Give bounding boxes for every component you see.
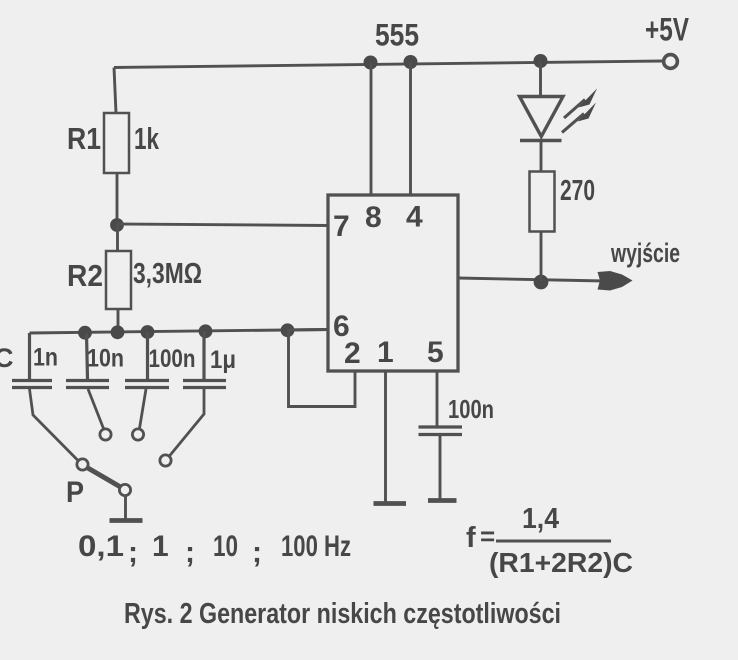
- label 100n (pin5): [448, 394, 494, 424]
- capacitor C5 100n: [419, 427, 463, 435]
- switch contact C2: [100, 429, 111, 440]
- wire C5 to ground: [439, 435, 442, 500]
- label wyjscie: [610, 238, 680, 268]
- wire pin 1 stub: [384, 371, 387, 502]
- node rail-LED: [534, 54, 548, 68]
- svg-text:2: 2: [344, 337, 361, 370]
- wire C bus: [30, 330, 329, 334]
- svg-text:;: ;: [128, 536, 138, 569]
- pin 8: [365, 201, 382, 234]
- wire pin 6: [288, 328, 329, 331]
- svg-text:5: 5: [427, 336, 444, 369]
- wire node A to R2: [116, 225, 119, 251]
- svg-text:;: ;: [185, 536, 195, 569]
- switch contact C4: [160, 455, 171, 466]
- wire LED to R3: [540, 141, 543, 172]
- wire pin 5 stub: [436, 371, 439, 426]
- svg-text:1k: 1k: [134, 121, 160, 156]
- svg-text:C: C: [0, 343, 14, 373]
- svg-text:10n: 10n: [87, 345, 124, 373]
- svg-text:R2: R2: [67, 258, 103, 293]
- wire node A to pin 7: [117, 224, 328, 226]
- label P: [66, 476, 84, 509]
- wire pin 2 loop: [289, 330, 356, 407]
- svg-text:10: 10: [213, 530, 238, 563]
- caption Rys. 2: [124, 598, 561, 630]
- svg-text:270: 270: [560, 175, 595, 207]
- switch contact C3: [132, 429, 143, 440]
- svg-text:P: P: [66, 476, 84, 509]
- terminal +5V: [664, 55, 678, 69]
- LED light arrow 1: [564, 89, 597, 119]
- pin 5: [427, 336, 444, 369]
- svg-text:100n: 100n: [149, 345, 196, 373]
- formula f = 1,4 / (R1+2R2)C: [466, 503, 633, 578]
- output arrow: [598, 271, 633, 291]
- node bus-C1n: [78, 326, 92, 340]
- svg-text:8: 8: [365, 201, 382, 234]
- label 10n: [87, 345, 124, 373]
- label C: [0, 343, 14, 373]
- wire output pin 3: [458, 278, 605, 281]
- svg-text:100n: 100n: [448, 394, 494, 424]
- LED light arrow 2: [562, 103, 596, 133]
- svg-text:1,4: 1,4: [522, 503, 559, 535]
- pin 2: [344, 337, 361, 370]
- resistor R3 270: [530, 172, 555, 232]
- node rail-pin4: [404, 55, 418, 69]
- node bus-R2: [111, 325, 125, 339]
- svg-text:555: 555: [375, 17, 419, 53]
- node bus-C100n: [141, 325, 155, 339]
- pin 1: [377, 336, 394, 369]
- capacitor C4 1u: [169, 332, 226, 457]
- svg-text:1μ: 1μ: [210, 346, 236, 374]
- ground C5: [428, 498, 457, 503]
- svg-text:Rys. 2 Generator niskich częst: Rys. 2 Generator niskich częstotliwości: [124, 598, 561, 630]
- node rail-pin8: [364, 56, 378, 70]
- svg-text:R1: R1: [67, 121, 101, 156]
- label 1n: [33, 344, 58, 372]
- svg-text:;: ;: [252, 536, 262, 569]
- svg-text:(R1+2R2)C: (R1+2R2)C: [489, 547, 633, 578]
- svg-text:1n: 1n: [33, 344, 58, 372]
- label R1: [67, 121, 101, 156]
- svg-text:3,3MΩ: 3,3MΩ: [133, 258, 202, 290]
- capacitor C3 100n: [125, 332, 169, 429]
- svg-text:4: 4: [406, 201, 423, 234]
- svg-text:1: 1: [377, 336, 394, 369]
- label 1u: [210, 346, 236, 374]
- svg-text:100 Hz: 100 Hz: [281, 530, 351, 563]
- svg-text:f: f: [466, 522, 476, 554]
- label 270: [560, 175, 595, 207]
- svg-text:7: 7: [333, 210, 350, 243]
- pin 7: [333, 210, 350, 243]
- ground pin 1: [374, 501, 407, 506]
- node bus-C1u: [199, 324, 213, 338]
- node A (R1/R2/pin7): [110, 218, 124, 232]
- switch P pole: [119, 484, 130, 495]
- label 3,3 Mohm: [133, 258, 202, 290]
- ground under switch: [110, 518, 143, 523]
- wire pin 4 stub: [409, 62, 412, 195]
- node bus-pin2: [281, 323, 295, 337]
- resistor R2: [106, 251, 131, 309]
- switch contact C1: [77, 459, 88, 470]
- LED D1: [520, 97, 564, 141]
- wire rail to R1: [114, 68, 116, 114]
- formula fraction bar: [496, 540, 611, 543]
- pin 6: [333, 310, 350, 343]
- op-amp U1 555 body: [328, 195, 458, 371]
- label R2: [67, 258, 103, 293]
- svg-text:+5V: +5V: [645, 12, 689, 48]
- label 100n: [149, 345, 196, 373]
- label 555: [375, 17, 419, 53]
- label 1k: [134, 121, 160, 156]
- svg-text:wyjście: wyjście: [610, 238, 680, 268]
- wire rail to LED: [539, 61, 542, 97]
- wire R1 to node A: [116, 173, 119, 225]
- capacitor C2 10n: [66, 333, 109, 429]
- node output-R270: [534, 275, 549, 290]
- resistor R1: [104, 113, 129, 173]
- svg-text:1: 1: [152, 530, 169, 563]
- pin 4: [406, 201, 423, 234]
- wire pin 8 stub: [370, 63, 373, 196]
- svg-text:0,1: 0,1: [78, 530, 124, 563]
- wire pole to ground: [124, 496, 127, 520]
- wire R2 to C bus: [117, 309, 120, 333]
- label +5V: [645, 12, 689, 48]
- switch P lever: [87, 468, 121, 488]
- label frequencies 0,1 ; 1 ; 10 ; 100 Hz: [78, 530, 351, 569]
- capacitor C1 1n: [12, 333, 78, 460]
- wire +5V rail: [114, 61, 663, 68]
- wire R3 to output: [540, 232, 543, 282]
